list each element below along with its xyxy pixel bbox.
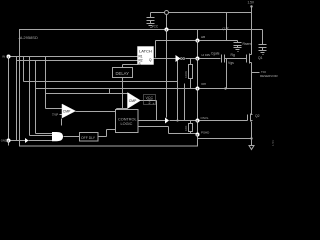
- wire GND pin y140: [11, 140, 26, 142]
- svg-text:2: 2: [149, 101, 151, 105]
- wire comparator A2 output y100: [141, 100, 157, 102]
- wire IN pin bus x8: [8, 57, 10, 146]
- pin 7 IOff: [196, 82, 206, 91]
- wire y81 branch: [24, 81, 178, 83]
- svg-text:S: S: [139, 62, 141, 66]
- wire input cap drop x262: [262, 30, 264, 45]
- svg-text:Cgate: Cgate: [211, 52, 220, 56]
- wire comparator A2 plus input: [110, 93, 128, 95]
- capacitor C2 (input bypass): [259, 45, 267, 51]
- wire bootstrap drop x226: [226, 13, 228, 41]
- svg-text:OSVL: OSVL: [201, 116, 209, 120]
- capacitor Csens: [234, 43, 242, 48]
- wire 1.5V input drop x251: [251, 7, 253, 55]
- wire y93 branch: [46, 93, 110, 95]
- node PSHD rail dot: [250, 137, 252, 139]
- comparator A1: [62, 104, 76, 118]
- wire comparator A1 output: [76, 111, 116, 113]
- svg-text:RESERVOIR: RESERVOIR: [260, 74, 278, 78]
- svg-text:( LR: ( LR: [223, 27, 230, 31]
- driver buffer D2 (control logic to OSVL): [165, 118, 169, 124]
- gate G1 (OR): [52, 132, 63, 141]
- wire HB internal y40: [156, 40, 196, 42]
- svg-text:CMP: CMP: [63, 110, 71, 114]
- input buffer D3 (GND pin): [25, 138, 29, 143]
- wire driver D1 out to HI DRV pin: [186, 58, 196, 60]
- wire comparator A1 minus input: [60, 114, 63, 116]
- transistor Q1: [246, 55, 248, 63]
- svg-text:DELAY: DELAY: [116, 71, 130, 76]
- reference label VCC/2: [144, 95, 156, 106]
- svg-text:HI DRV: HI DRV: [202, 53, 211, 57]
- wire x16 drop to GND wire: [16, 57, 18, 141]
- wire Vgs sense drop x226: [226, 59, 228, 89]
- wire x23 drop: [23, 57, 25, 82]
- svg-text:PSHD: PSHD: [201, 131, 210, 135]
- wire x177 internal drop: [177, 61, 179, 121]
- wire comparator A2 minus riser: [116, 109, 118, 110]
- pin 6 OSVL: [196, 116, 209, 123]
- wire x184 internal drop: [184, 84, 186, 121]
- wire PSHD external y138: [198, 138, 252, 140]
- svg-text:IN: IN: [2, 55, 5, 59]
- resistor RB body: [189, 124, 193, 132]
- wire control logic lower output y126: [139, 126, 169, 128]
- resistor RA body: [189, 65, 193, 79]
- IC body U1: [20, 30, 198, 147]
- contact circles on D1 output: [180, 58, 182, 60]
- wire IN y56: [11, 56, 138, 58]
- wire delay to control logic x122: [122, 78, 124, 110]
- svg-text:IOff: IOff: [201, 82, 206, 86]
- wire HB internal drop x155: [155, 41, 157, 58]
- wire Q1 source drop x251: [251, 63, 253, 89]
- pin 5 HI DRV: [196, 53, 211, 61]
- svg-text:+: +: [153, 102, 155, 106]
- wire x61 reference drop: [61, 119, 63, 126]
- transistor Q2: [247, 115, 249, 121]
- node 1.5V entry dot: [250, 5, 252, 7]
- resistor RA leads: [190, 59, 192, 65]
- wire buffer D3 out to gate: [29, 140, 53, 142]
- wire control logic to driver D2 y120: [139, 120, 166, 122]
- pin 3 HB: [196, 35, 206, 43]
- capacitor Cgate plates: [221, 55, 223, 63]
- svg-text:AL2958SD: AL2958SD: [19, 35, 38, 40]
- svg-text:GND: GND: [1, 139, 7, 143]
- ground below Csens: [234, 48, 242, 52]
- wire x35 drop to SW rail and gate: [35, 61, 37, 134]
- off delay block U5: [80, 133, 99, 142]
- control logic block U4: [116, 110, 139, 133]
- wire R2 input y60: [17, 60, 138, 62]
- pin 2 GND: [1, 139, 11, 144]
- wire x29 drop to gate: [29, 57, 31, 136]
- wire Q2 source drop: [251, 122, 253, 146]
- wire comparator A2 output drop x156: [156, 101, 158, 121]
- svg-text:LATCH: LATCH: [139, 49, 152, 54]
- svg-text:CONTROL: CONTROL: [118, 118, 137, 122]
- wire comparator A1 plus input: [46, 108, 63, 110]
- svg-text:10K: 10K: [184, 126, 188, 131]
- resistor RB leads: [190, 121, 192, 124]
- wire OFF box output step: [99, 136, 107, 138]
- comparator A2: [128, 93, 141, 109]
- capacitor C1 (VCC bypass): [147, 18, 155, 24]
- wire PSHD internal y133: [169, 133, 198, 135]
- wire gate drive y58 right to Q1: [225, 58, 247, 60]
- wire VCC top rail y12: [151, 12, 252, 14]
- svg-text:VCC: VCC: [152, 24, 159, 28]
- pin 1 IN: [2, 55, 11, 60]
- ground below C1: [147, 24, 155, 28]
- wire latch S input: [123, 64, 138, 66]
- wire x109 drop: [109, 89, 111, 94]
- svg-text:VCC: VCC: [146, 96, 154, 100]
- svg-text:Rg: Rg: [231, 53, 235, 57]
- svg-text:HB: HB: [201, 35, 205, 39]
- wire gate G1 output y136: [64, 136, 80, 138]
- node SW junction dot: [224, 87, 226, 89]
- wire SW sense rail y88: [36, 88, 252, 90]
- wire driver D2 out to OSVL pin: [170, 120, 196, 122]
- node OSVL wire dot: [176, 119, 178, 121]
- capacitor C1 top lead: [150, 13, 152, 18]
- svg-text:LOGIC: LOGIC: [121, 122, 133, 126]
- wire Q2 drain drop x252: [251, 89, 253, 115]
- svg-text:Q2: Q2: [255, 114, 260, 118]
- wire x45 drop to comparator A1: [45, 57, 47, 109]
- delay block U3: [113, 68, 133, 78]
- capacitor Csens top lead: [237, 41, 239, 43]
- wire latch Q output y58: [154, 58, 176, 60]
- driver buffer D1 (latch to HI DRV): [176, 55, 181, 62]
- pin 8 PSHD: [196, 131, 211, 137]
- svg-text:TYP: TYP: [52, 113, 58, 117]
- ground below C2: [259, 51, 267, 55]
- wire VCC riser x166 and internal VCC drop: [166, 15, 168, 118]
- node VCC rail open circle: [165, 11, 169, 15]
- svg-text:Q1: Q1: [258, 56, 263, 60]
- wire VIN rail y29 (top edge extension to input cap): [198, 29, 263, 31]
- ground arrow at Q2 source: [249, 146, 254, 150]
- svg-text:CMP: CMP: [129, 99, 137, 103]
- wire gate drive y58 (HI DRV to Cgate): [200, 58, 221, 60]
- wire HB pin feed y40: [200, 40, 238, 42]
- svg-text:Vgs: Vgs: [228, 61, 234, 65]
- wire OSVL to Q2 gate y120: [200, 120, 248, 122]
- pin 4 VCC: [152, 24, 169, 32]
- svg-text:100K: 100K: [184, 71, 188, 78]
- latch U2: [138, 47, 154, 66]
- svg-text:Rsens: Rsens: [243, 42, 253, 46]
- wire reservoir stub: [252, 72, 260, 74]
- svg-text:1.5V: 1.5V: [248, 1, 255, 5]
- svg-text:1.5V: 1.5V: [271, 140, 275, 146]
- svg-text:OFF DLY: OFF DLY: [81, 136, 96, 140]
